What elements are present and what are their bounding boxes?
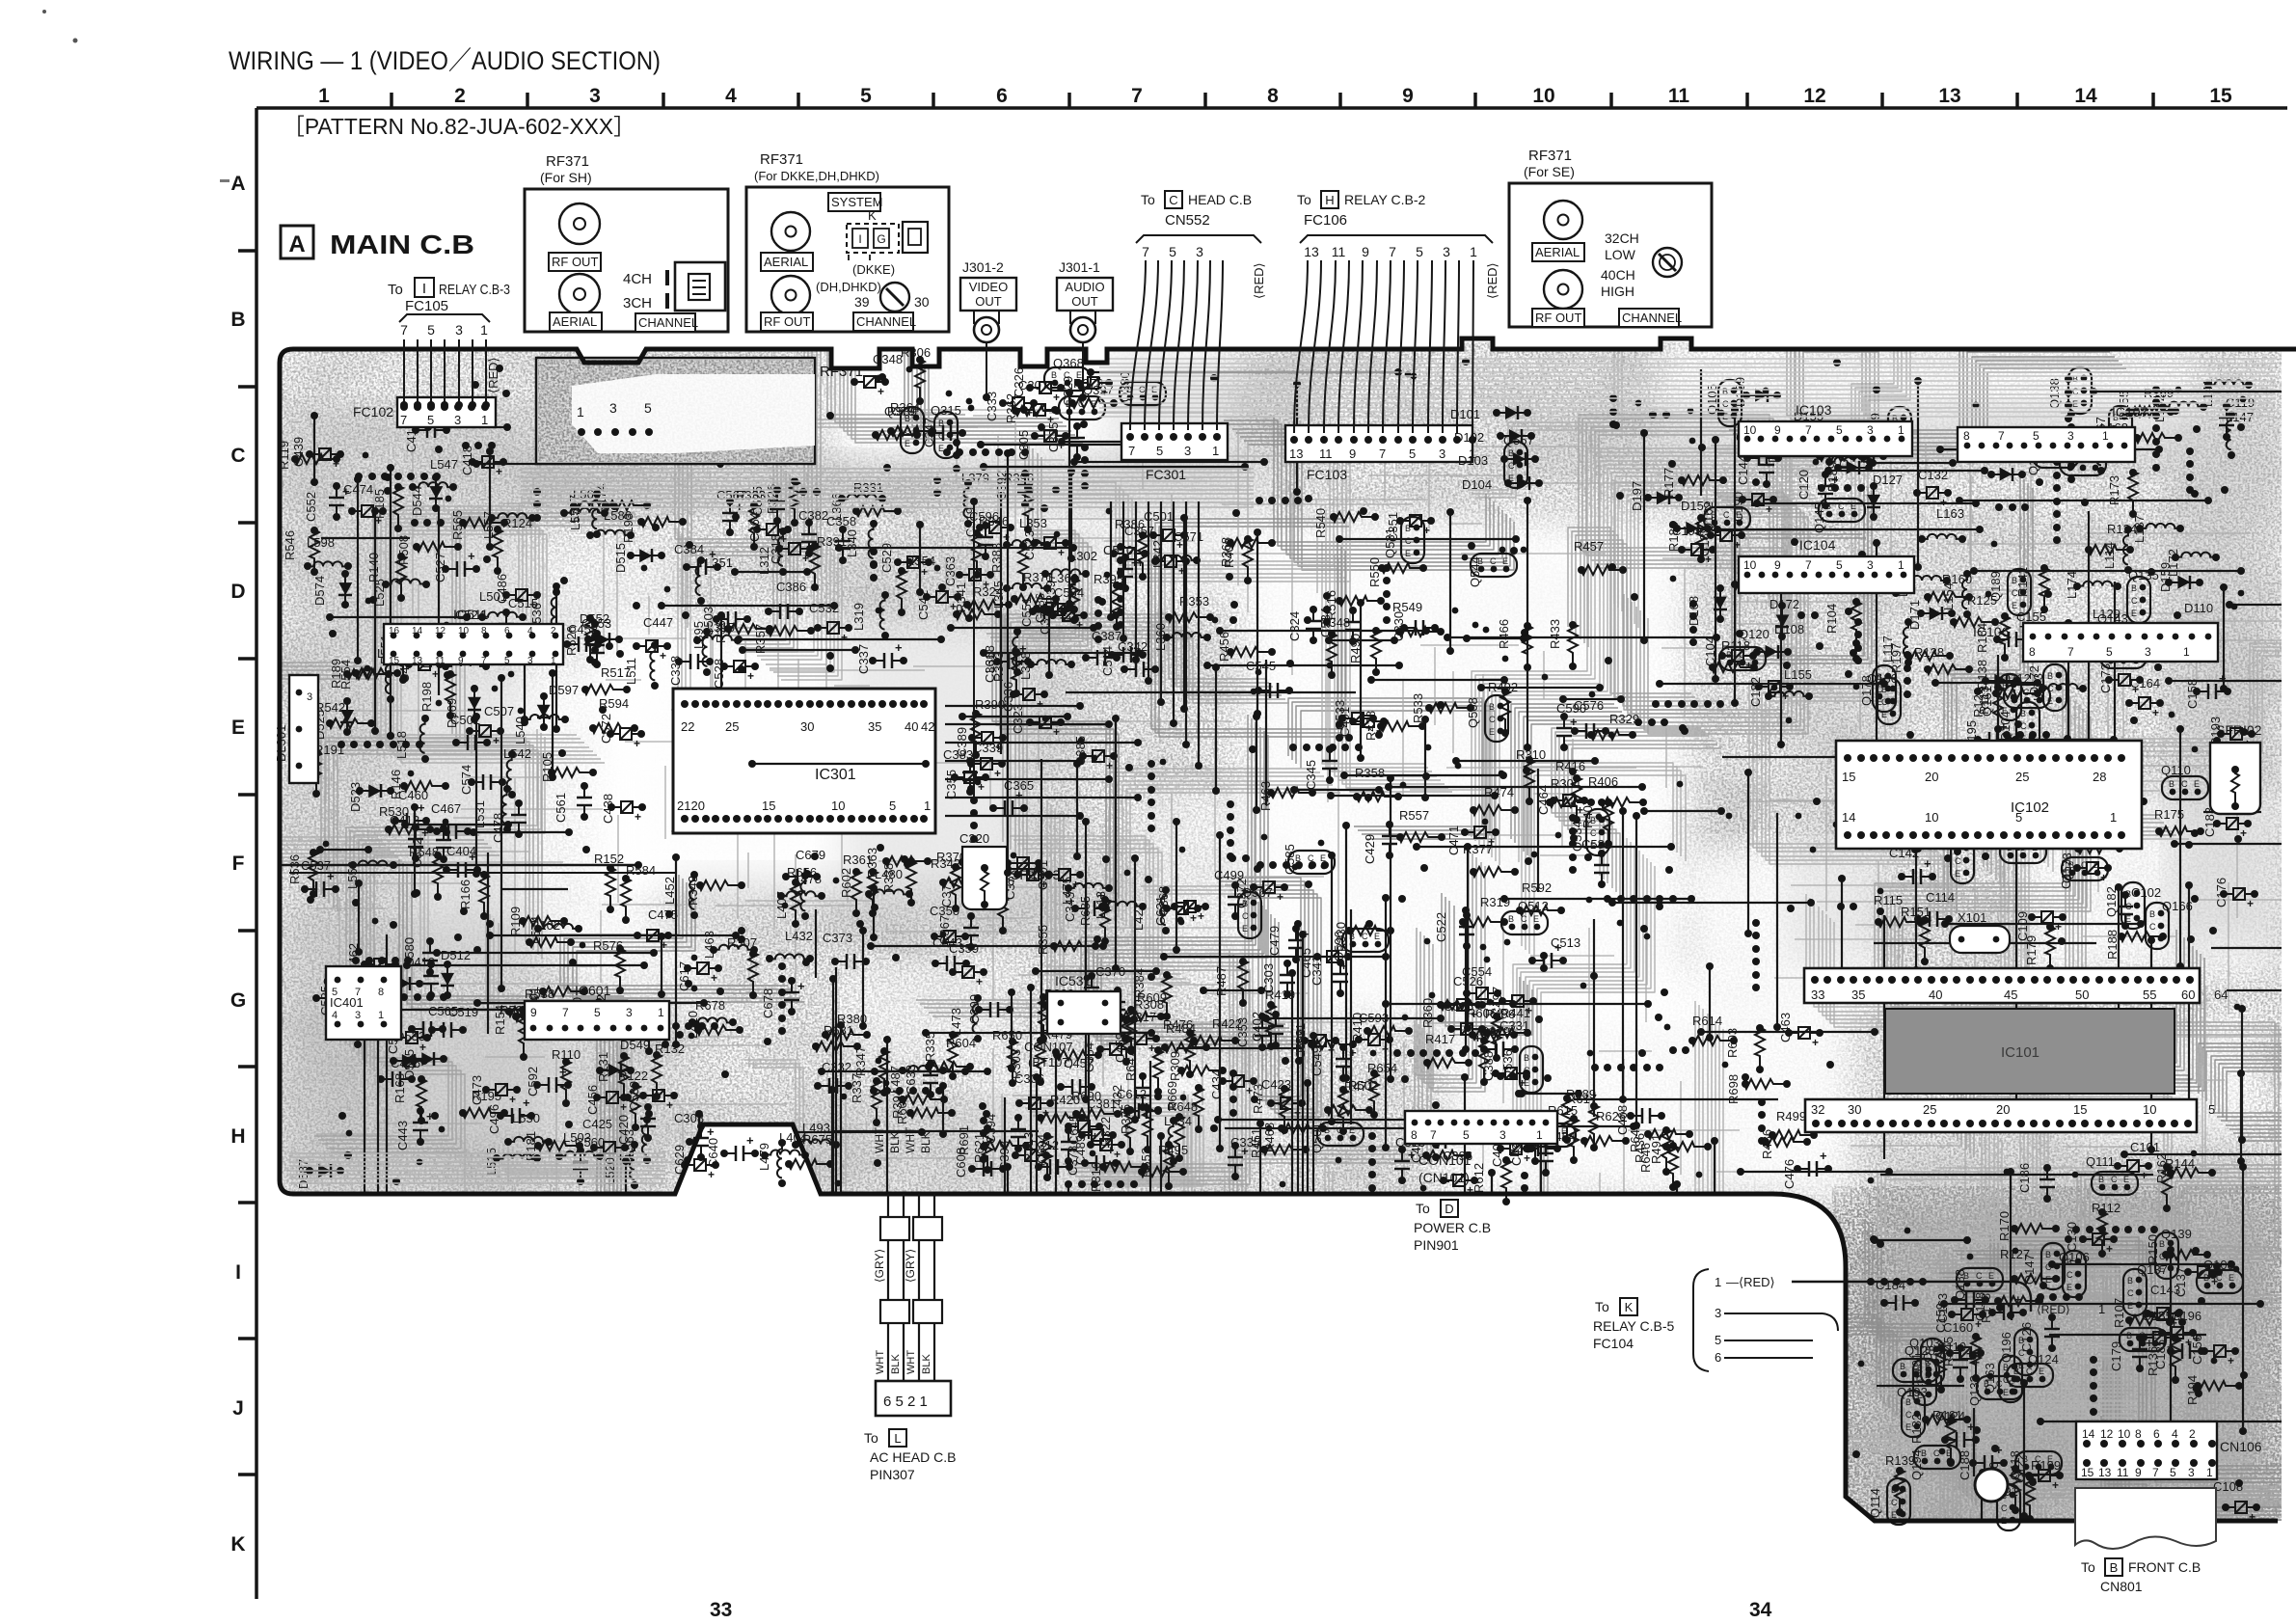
svg-text:C312: C312 <box>1029 1138 1059 1152</box>
wire bundle below FC301 <box>945 501 1202 820</box>
capacitor C526 <box>1444 974 1483 1021</box>
inductor L517 <box>567 495 618 523</box>
resistor R526 <box>564 614 595 663</box>
svg-text:R162: R162 <box>2154 1153 2169 1183</box>
resistor R324 <box>953 584 1003 619</box>
svg-text:15: 15 <box>2209 85 2232 107</box>
resistor R463 <box>1258 781 1316 811</box>
capacitor C420 <box>616 1103 656 1145</box>
svg-text:B: B <box>1405 524 1411 533</box>
capacitor C478 <box>491 799 527 843</box>
inductor L598 <box>304 535 352 570</box>
resistor R375 <box>1119 1104 1152 1153</box>
capacitor C341 <box>1310 956 1348 997</box>
resistor R322 <box>1098 1106 1135 1155</box>
svg-text:WIRING — 1 (VIDEO／AUDIO SEC: WIRING — 1 (VIDEO／AUDIO SECTION) <box>229 46 661 75</box>
svg-text:2: 2 <box>551 626 556 636</box>
svg-text:11: 11 <box>1668 85 1690 107</box>
svg-text:C514: C514 <box>1100 646 1115 676</box>
svg-text:C326: C326 <box>1012 367 1026 397</box>
capacitor C345 <box>1304 745 1337 790</box>
capacitor C384 <box>674 542 721 575</box>
capacitor C423 <box>1261 1077 1306 1120</box>
resistor R110 <box>552 1047 581 1107</box>
label To C HEAD C.B CN552 <box>1136 191 1261 259</box>
svg-text:D172: D172 <box>1769 597 1799 611</box>
svg-text:(For DKKE,DH,DHKD): (For DKKE,DH,DHKD) <box>754 169 879 183</box>
svg-text:+: + <box>802 552 809 565</box>
capacitor C338 <box>668 654 714 686</box>
inductor L478 <box>777 872 825 900</box>
svg-text:1: 1 <box>1470 244 1477 259</box>
svg-text:+: + <box>1053 725 1060 739</box>
svg-text:⟨RED⟩: ⟨RED⟩ <box>486 357 500 393</box>
capacitor C532 <box>809 601 852 644</box>
svg-text:R565: R565 <box>450 510 465 540</box>
svg-text:E: E <box>2003 1388 2009 1397</box>
inductor L112 <box>2078 626 2126 654</box>
capacitor C126 <box>2019 1313 2060 1352</box>
component SFR303 <box>962 847 1061 909</box>
svg-text:L345: L345 <box>991 581 1006 609</box>
svg-text:C373: C373 <box>823 931 852 945</box>
capacitor C335 <box>1228 1135 1260 1180</box>
inductor L407 <box>774 872 809 920</box>
svg-text:L137: L137 <box>2132 515 2147 543</box>
capacitor C189 <box>1697 527 1745 556</box>
svg-text:R125: R125 <box>1967 593 1997 608</box>
svg-text:D101: D101 <box>1450 407 1480 421</box>
resistor R536 <box>287 849 318 898</box>
svg-text:C418: C418 <box>460 446 474 475</box>
svg-text:E: E <box>2228 1273 2234 1283</box>
inductor L515 <box>484 1148 541 1176</box>
capacitor C164 <box>2125 676 2164 719</box>
svg-text:R407: R407 <box>1580 798 1595 828</box>
capacitor C576 <box>1571 698 1609 739</box>
svg-text:C459: C459 <box>1113 1033 1127 1063</box>
IC IC101 <box>1804 968 2228 1132</box>
svg-text:+: + <box>1924 856 1931 871</box>
svg-text:L432: L432 <box>785 929 813 943</box>
svg-text:+: + <box>1812 1036 1819 1049</box>
capacitor C528 <box>712 659 759 689</box>
svg-text:C: C <box>1489 715 1496 724</box>
svg-text:R152: R152 <box>594 852 624 866</box>
capacitor C101 <box>2114 1140 2160 1182</box>
capacitor C432 <box>1110 1072 1150 1115</box>
svg-text:1: 1 <box>551 656 556 666</box>
transistor Q397 <box>1059 383 1114 420</box>
svg-text:J301-2: J301-2 <box>962 259 1004 275</box>
transistor Q138 <box>2047 367 2092 414</box>
capacitor C184 <box>1876 1278 1919 1311</box>
svg-text:3: 3 <box>1439 447 1445 461</box>
svg-text:3: 3 <box>307 691 312 703</box>
svg-text:13: 13 <box>1938 85 1960 107</box>
svg-text:3: 3 <box>589 85 601 107</box>
svg-text:R199: R199 <box>2031 1458 2061 1473</box>
svg-text:—⟨RED⟩: —⟨RED⟩ <box>1726 1275 1775 1289</box>
resistor R678 <box>694 998 743 1035</box>
svg-text:MAIN C.B: MAIN C.B <box>330 230 474 259</box>
IC IC401 <box>326 966 401 1040</box>
svg-text:Q315: Q315 <box>931 403 961 418</box>
capacitor C507 <box>466 704 514 747</box>
capacitor C119 <box>2219 395 2255 441</box>
inductor L547 <box>409 457 458 491</box>
resistor R406 <box>1588 774 1647 807</box>
svg-text:R362: R362 <box>1004 393 1018 423</box>
svg-text:C137: C137 <box>2174 1267 2188 1297</box>
capacitor C128 <box>1997 759 2047 793</box>
capacitor C425 <box>582 1117 629 1164</box>
svg-text:E: E <box>2127 1301 2133 1311</box>
resistor R107 <box>2112 1298 2174 1328</box>
inductor L531 <box>473 785 511 833</box>
svg-text:WHT: WHT <box>904 1126 917 1153</box>
svg-text:C499: C499 <box>1214 868 1244 882</box>
svg-text:C: C <box>1891 1498 1898 1507</box>
capacitor C612 <box>1117 1087 1162 1119</box>
inductor L556 <box>345 860 397 889</box>
svg-text:C371: C371 <box>939 878 954 907</box>
transistor Q167 <box>2093 406 2132 452</box>
resistor R112 <box>2092 1201 2120 1258</box>
svg-text:+: + <box>2228 1354 2234 1367</box>
resistor R166 <box>458 871 489 920</box>
capacitor C467 <box>431 801 472 839</box>
diode D114 <box>1837 439 1887 468</box>
svg-text:5: 5 <box>504 656 510 666</box>
wire <box>270 318 2285 1562</box>
svg-text:+: + <box>666 1098 673 1112</box>
capacitor C110 <box>1937 1340 1974 1383</box>
svg-text:CHANNEL: CHANNEL <box>856 314 916 329</box>
inductor L479 <box>757 1143 809 1171</box>
svg-text:C338: C338 <box>668 656 683 686</box>
svg-text:5: 5 <box>1409 447 1416 461</box>
svg-text:CON107: CON107 <box>1024 1040 1073 1054</box>
svg-text:+: + <box>746 1133 754 1148</box>
svg-text:C447: C447 <box>643 615 673 630</box>
svg-text:L353: L353 <box>1019 516 1047 530</box>
svg-text:To: To <box>1297 192 1311 207</box>
svg-text:D197: D197 <box>1630 481 1644 511</box>
svg-text:K: K <box>868 208 877 223</box>
inductor L154 <box>1941 570 1971 618</box>
resistor R397 <box>1043 574 1079 624</box>
svg-text:+: + <box>1053 391 1060 404</box>
svg-text:Q531: Q531 <box>1383 528 1397 558</box>
capacitor C188 <box>1958 1443 2008 1480</box>
svg-text:B: B <box>2013 1367 2019 1376</box>
inductor L163 <box>1918 506 1966 543</box>
resistor R371 <box>1011 570 1060 604</box>
svg-text:R526: R526 <box>564 626 579 656</box>
resistor R675 <box>785 1132 834 1169</box>
transistor Q368 <box>1044 356 1091 391</box>
svg-text:(For SH): (For SH) <box>540 170 592 185</box>
capacitor C412 <box>404 422 450 452</box>
resistor R395 <box>1094 572 1123 631</box>
transistor Q111 <box>2086 1154 2138 1195</box>
label To I RELAY C.B-3 FC105 <box>388 278 510 338</box>
ruler top <box>257 85 2287 108</box>
component SFR102 <box>2210 722 2262 814</box>
svg-text:F: F <box>232 853 245 875</box>
inductor L487 <box>888 1066 947 1094</box>
svg-text:AERIAL: AERIAL <box>553 314 597 329</box>
svg-text:12: 12 <box>2100 1427 2114 1441</box>
svg-text:IC301: IC301 <box>815 767 856 783</box>
resistor R533 <box>1411 693 1474 723</box>
capacitor C363 <box>943 556 994 591</box>
svg-text:C404: C404 <box>446 844 476 858</box>
capacitor C179 <box>2109 1334 2153 1372</box>
svg-text:1: 1 <box>481 413 488 427</box>
svg-text:12: 12 <box>1803 85 1825 107</box>
svg-text:R193: R193 <box>621 513 635 543</box>
svg-text:IC531: IC531 <box>1055 973 1092 988</box>
svg-text:To: To <box>1416 1201 1430 1216</box>
svg-text:R198: R198 <box>419 682 434 712</box>
svg-text:HIGH: HIGH <box>1601 284 1634 299</box>
svg-text:To: To <box>1595 1299 1609 1314</box>
capacitor C463 <box>1778 1013 1823 1049</box>
resistor R142 <box>2015 564 2049 613</box>
resistor R177 <box>1661 468 1727 498</box>
svg-text:R678: R678 <box>695 998 725 1013</box>
svg-text:E: E <box>1988 1271 1994 1281</box>
svg-text:Q544: Q544 <box>1468 556 1482 587</box>
svg-text:B: B <box>1489 702 1495 712</box>
inductor L173 <box>2031 673 2087 701</box>
resistor R306 <box>901 345 931 405</box>
svg-text:3: 3 <box>527 656 533 666</box>
transistor Q194 <box>1909 1446 1960 1480</box>
svg-text:R343: R343 <box>686 876 700 906</box>
svg-text:B: B <box>2203 1273 2209 1283</box>
left frame ruler <box>230 108 257 1599</box>
resistor R313 <box>1021 1132 1052 1181</box>
capacitor C617 <box>677 961 722 991</box>
capacitor C640 <box>706 1133 759 1168</box>
svg-text:2: 2 <box>454 85 466 107</box>
resistor R128 <box>1914 645 1973 674</box>
capacitor C509 <box>1293 1029 1339 1059</box>
resistor R161 <box>1932 1408 1962 1466</box>
capacitor C373 <box>823 931 870 969</box>
svg-text:+: + <box>1092 1129 1098 1143</box>
svg-text:5: 5 <box>1169 244 1176 259</box>
svg-text:3: 3 <box>1184 444 1191 458</box>
resistor R681 <box>812 1023 861 1051</box>
svg-text:C: C <box>2131 596 2138 606</box>
svg-text:3: 3 <box>609 400 617 416</box>
diode D169 <box>1733 377 1781 407</box>
capacitor C389 <box>955 727 1007 757</box>
inductor L421 <box>1131 886 1170 934</box>
svg-text:+: + <box>559 1065 567 1079</box>
resistor R185 <box>372 483 403 532</box>
transistor Q173 <box>2060 853 2108 883</box>
resistor R386 <box>1115 517 1148 581</box>
svg-text:15: 15 <box>762 798 775 813</box>
capacitor C114 <box>1914 890 1955 927</box>
resistor R474 <box>1470 785 1519 815</box>
svg-text:C507: C507 <box>484 704 514 718</box>
svg-text:C: C <box>1976 1271 1983 1281</box>
svg-text:C164: C164 <box>2130 676 2160 690</box>
capacitor C155 <box>1993 609 2046 647</box>
resistor R373 <box>991 648 1021 697</box>
resistor R516 <box>1324 590 1385 620</box>
svg-text:64: 64 <box>2214 988 2228 1002</box>
capacitor C444 <box>355 991 401 1021</box>
svg-text:CN801: CN801 <box>2100 1579 2143 1594</box>
svg-text:6: 6 <box>2153 1427 2160 1441</box>
svg-text:To: To <box>864 1430 878 1446</box>
svg-text:13: 13 <box>412 656 423 666</box>
inductor L302 <box>1041 549 1097 578</box>
svg-text:R403: R403 <box>1222 538 1236 568</box>
resistor R118 <box>1709 638 1758 672</box>
capacitor C413 <box>390 813 429 862</box>
resistor R307 <box>727 935 758 999</box>
svg-text:C: C <box>1881 697 1888 707</box>
svg-text:7: 7 <box>1379 447 1386 461</box>
diode D102 <box>1454 429 1535 445</box>
inductor L463 <box>702 931 758 959</box>
transistor Q186 <box>1867 671 1901 724</box>
inductor L360 <box>1153 623 1211 651</box>
resistor R171 <box>1769 559 1835 589</box>
resistor R642 <box>1628 1123 1693 1152</box>
transistor Q178 <box>1859 665 1896 712</box>
resistor R113 <box>1977 686 2041 715</box>
svg-text:IC103: IC103 <box>1796 402 1832 418</box>
capacitor C552 <box>304 482 350 522</box>
svg-text:C590: C590 <box>1556 701 1586 716</box>
inductor L434 <box>1164 1114 1192 1165</box>
svg-text:E: E <box>1242 924 1248 934</box>
svg-text:8: 8 <box>378 987 384 998</box>
svg-text:C: C <box>2001 1503 2008 1513</box>
transistor Q179 <box>2026 445 2079 475</box>
resistor R155 <box>2117 391 2179 420</box>
svg-text:L503: L503 <box>563 1130 591 1145</box>
svg-text:C110: C110 <box>1937 1340 1966 1354</box>
resistor R656 <box>787 865 817 928</box>
inductor L432 <box>766 929 814 962</box>
svg-text:C: C <box>1405 536 1412 546</box>
transistor Q188 <box>1953 1268 2003 1300</box>
svg-text:R499: R499 <box>1776 1109 1806 1123</box>
svg-text:D: D <box>230 581 245 603</box>
svg-text:H: H <box>230 1125 245 1148</box>
inductor L340 <box>845 520 878 568</box>
svg-text:L452: L452 <box>662 877 677 905</box>
svg-text:C528: C528 <box>712 659 726 689</box>
resistor R115 <box>1874 893 1924 927</box>
IC IC511 <box>384 607 563 666</box>
svg-text:C429: C429 <box>1363 834 1377 864</box>
resistor R194 <box>2185 1375 2243 1405</box>
svg-text:35: 35 <box>1851 988 1865 1002</box>
svg-text:Q114: Q114 <box>1868 1488 1882 1518</box>
diode D155 <box>1794 409 1833 441</box>
svg-text:AC HEAD C.B: AC HEAD C.B <box>870 1449 956 1465</box>
capacitor C511 <box>386 1025 431 1054</box>
svg-text:C367: C367 <box>937 915 952 945</box>
resistor R540 <box>1313 508 1379 538</box>
transistor Q330 <box>1118 371 1166 405</box>
capacitor C133 <box>1870 793 1913 833</box>
svg-text:R360: R360 <box>1420 998 1435 1028</box>
svg-text:7: 7 <box>1131 85 1143 107</box>
transistor Q161 <box>1980 674 2021 720</box>
capacitor C402 <box>1250 1011 1283 1049</box>
resistor R184 <box>1975 612 2010 662</box>
capacitor C333 <box>985 392 1038 421</box>
svg-text:D102: D102 <box>1454 430 1484 445</box>
inductor L586 <box>586 508 635 539</box>
svg-text:D104: D104 <box>1462 477 1492 492</box>
inductor L572 <box>568 490 601 538</box>
svg-text:7: 7 <box>481 656 487 666</box>
svg-text:R612: R612 <box>1472 1163 1486 1193</box>
svg-text:20: 20 <box>1996 1102 2010 1117</box>
svg-text:Q196: Q196 <box>1999 1332 2013 1363</box>
transistor Q557 <box>1503 433 1534 488</box>
svg-text:5: 5 <box>1836 558 1843 572</box>
svg-text:25: 25 <box>2015 770 2029 784</box>
svg-text:H: H <box>1325 193 1334 207</box>
svg-text:R487: R487 <box>1214 966 1229 996</box>
capacitor C388 <box>1481 1051 1530 1090</box>
resistor R168 <box>392 1073 426 1124</box>
svg-text:I: I <box>235 1261 241 1284</box>
resistor R134 <box>2085 522 2137 555</box>
svg-text:5: 5 <box>594 1006 601 1019</box>
resistor R354 <box>897 554 935 616</box>
svg-text:A: A <box>288 231 305 257</box>
capacitor C465 <box>1299 948 1352 978</box>
svg-text:3: 3 <box>454 413 461 427</box>
capacitor C539 <box>627 1081 678 1112</box>
transistor Q564 <box>1521 1123 1576 1153</box>
capacitor C323 <box>1011 704 1065 739</box>
capacitor C318 <box>769 534 814 565</box>
diode D525 <box>312 697 354 740</box>
inductor L543 <box>420 631 451 679</box>
resistor R690 <box>1071 1089 1121 1119</box>
diode D569 <box>445 685 481 728</box>
svg-text:B: B <box>1900 1362 1905 1371</box>
svg-text:R104: R104 <box>1824 604 1839 634</box>
svg-text:11: 11 <box>1319 447 1333 461</box>
svg-text:C: C <box>2127 1288 2134 1298</box>
capacitor C378 <box>1066 1143 1120 1176</box>
resistor R173 <box>2107 469 2138 518</box>
svg-text:CN106: CN106 <box>2220 1439 2262 1454</box>
resistor R162 <box>2154 1153 2216 1183</box>
svg-text:E: E <box>2039 1367 2044 1376</box>
svg-text:R110: R110 <box>552 1047 581 1062</box>
svg-text:+: + <box>711 971 717 985</box>
capacitor C313 <box>1394 1135 1425 1184</box>
